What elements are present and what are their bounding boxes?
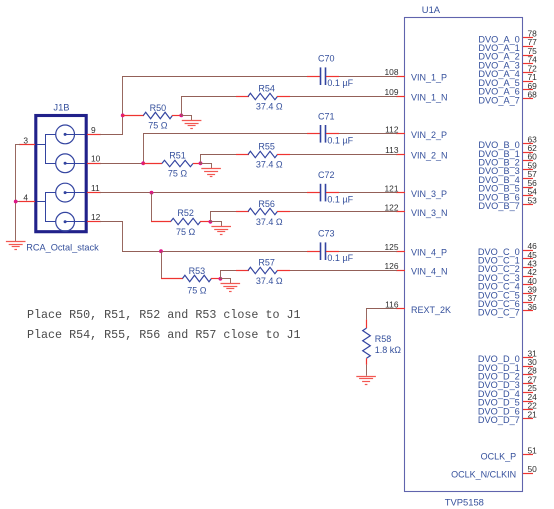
U1A pin 25 DVO_D_4	[478, 383, 537, 399]
svg-text:75 Ω: 75 Ω	[148, 120, 168, 130]
svg-text:116: 116	[385, 299, 399, 309]
capacitor C73 0.1 uF	[307, 228, 354, 263]
svg-text:50: 50	[528, 464, 538, 474]
U1A pin 21 DVO_D_7	[478, 409, 537, 425]
svg-text:VIN_3_N: VIN_3_N	[411, 208, 448, 218]
J1B pin 4	[19, 192, 35, 202]
U1A pin 116 REXT_2K	[385, 299, 451, 315]
U1A pin 113 VIN_2_N	[385, 145, 447, 161]
svg-text:0.1 µF: 0.1 µF	[327, 194, 353, 204]
junction ch3 R52/gnd	[209, 220, 213, 224]
junction on ground rail at pin 4	[14, 200, 18, 204]
svg-text:REXT_2K: REXT_2K	[411, 305, 451, 315]
U1A pin 40 DVO_C_4	[478, 276, 537, 292]
wire VIN_3_N net	[210, 212, 397, 222]
svg-text:DVO_A_7: DVO_A_7	[478, 95, 519, 105]
resistor R56 37.4 Ohm	[236, 199, 290, 227]
svg-text:36: 36	[528, 302, 538, 312]
U1A pin 24 DVO_D_5	[478, 392, 537, 408]
svg-text:122: 122	[385, 202, 399, 212]
junction ch4 R53/gnd	[219, 277, 223, 281]
U1A pin 51 OCLK_P	[481, 446, 537, 462]
U1A pin 112 VIN_2_P	[385, 125, 447, 141]
svg-text:121: 121	[385, 183, 399, 193]
U1A pin 43 DVO_C_2	[478, 258, 537, 274]
svg-text:OCLK_N/CLKIN: OCLK_N/CLKIN	[451, 470, 516, 480]
U1A pin 72 DVO_A_4	[478, 63, 537, 79]
U1A pin 108 VIN_1_P	[385, 67, 448, 83]
svg-text:R52: R52	[177, 208, 194, 218]
svg-text:R55: R55	[258, 141, 275, 151]
U1A pin 27 DVO_D_3	[478, 374, 537, 390]
svg-text:75 Ω: 75 Ω	[176, 227, 196, 237]
U1A pin 71 DVO_A_5	[478, 72, 537, 88]
wire VIN_4_P net	[122, 251, 397, 253]
U1A pin 69 DVO_A_6	[478, 81, 537, 97]
wire ch4 down to R53	[161, 251, 163, 279]
junction ch3	[150, 191, 154, 195]
resistor R57 37.4 Ohm	[236, 258, 290, 286]
U1A pin 77 DVO_A_1	[478, 37, 537, 53]
resistor R52 75 Ohm	[151, 208, 211, 237]
svg-text:R54: R54	[258, 83, 275, 93]
svg-text:C70: C70	[318, 53, 335, 63]
svg-text:21: 21	[528, 409, 538, 419]
U1A pin 60 DVO_B_2	[478, 152, 537, 168]
U1A pin 109 VIN_1_N	[385, 87, 448, 103]
junction ch1 R50/gnd	[179, 114, 183, 118]
U1A pin 37 DVO_C_6	[478, 293, 537, 309]
svg-text:0.1 µF: 0.1 µF	[327, 136, 353, 146]
wire J1B pin11 / VIN_3_P net	[100, 192, 397, 194]
ground (J1B shield)	[6, 242, 26, 250]
U1A pin 57 DVO_B_4	[478, 169, 537, 185]
J1B pin 9	[87, 125, 101, 135]
svg-text:37.4 Ω: 37.4 Ω	[256, 101, 283, 111]
svg-text:R50: R50	[150, 103, 167, 113]
svg-text:VIN_2_P: VIN_2_P	[411, 130, 447, 140]
op-amp U1A (TVP5158 IC body)	[405, 4, 523, 508]
svg-text:R56: R56	[258, 199, 275, 209]
wire ch3 down to R52	[151, 193, 153, 222]
U1A pin 54 DVO_B_6	[478, 187, 537, 203]
svg-text:RCA_Octal_stack: RCA_Octal_stack	[26, 243, 99, 253]
J1B pin 12	[87, 212, 101, 222]
U1A pin 46 DVO_C_0	[478, 241, 537, 257]
ground ch3	[210, 222, 231, 235]
svg-text:10: 10	[91, 154, 101, 164]
ground ch4	[220, 279, 240, 292]
wire VIN_1_N net	[181, 96, 397, 115]
U1A pin 36 DVO_C_7	[478, 302, 537, 318]
wire R58 to ground	[366, 365, 368, 376]
wire VIN_1_P net	[122, 76, 397, 78]
svg-text:Place R50, R51, R52 and R53 cl: Place R50, R51, R52 and R53 close to J1	[27, 308, 301, 322]
svg-text:126: 126	[385, 261, 399, 271]
resistor R51 75 Ohm	[143, 151, 201, 179]
U1A pin 78 DVO_A_0	[478, 29, 537, 45]
resistor R58 1.8 kOhm	[363, 320, 402, 365]
svg-text:113: 113	[385, 145, 399, 155]
svg-text:VIN_3_P: VIN_3_P	[411, 189, 447, 199]
svg-text:R57: R57	[258, 258, 275, 268]
svg-text:0.1 µF: 0.1 µF	[327, 253, 353, 263]
svg-text:J1B: J1B	[53, 102, 69, 113]
svg-text:C71: C71	[318, 111, 335, 121]
U1A pin 28 DVO_D_2	[478, 366, 537, 382]
wire VIN_4_N net	[220, 270, 397, 279]
U1A pin 63 DVO_B_0	[478, 134, 537, 150]
resistor R53 75 Ohm	[161, 266, 221, 295]
U1A pin 121 VIN_3_P	[385, 183, 448, 199]
U1A pin 122 VIN_3_N	[385, 202, 448, 218]
svg-text:12: 12	[91, 212, 101, 222]
svg-text:R53: R53	[189, 266, 206, 276]
wire J1B pin12 to node	[100, 222, 123, 252]
resistor R54 37.4 Ohm	[236, 83, 290, 111]
svg-text:3: 3	[23, 135, 28, 145]
svg-text:53: 53	[528, 195, 538, 205]
U1A pin 74 DVO_A_3	[478, 55, 537, 71]
junction ch4	[159, 249, 163, 253]
svg-text:9: 9	[91, 125, 96, 135]
U1A pin 50 OCLK_N/CLKIN	[451, 464, 537, 480]
svg-text:DVO_D_7: DVO_D_7	[478, 415, 520, 425]
wire VIN_2_N net	[200, 154, 397, 163]
svg-text:VIN_1_P: VIN_1_P	[411, 73, 447, 83]
svg-text:U1A: U1A	[422, 4, 441, 15]
svg-text:37.4 Ω: 37.4 Ω	[256, 276, 283, 286]
resistor R55 37.4 Ohm	[236, 141, 290, 169]
J1B pin 10	[87, 154, 101, 164]
svg-text:VIN_4_N: VIN_4_N	[411, 267, 448, 277]
svg-text:OCLK_P: OCLK_P	[481, 451, 517, 461]
wire J1B pin10 to node	[100, 134, 144, 164]
U1A pin 53 DVO_B_7	[478, 195, 537, 211]
wire REXT_2K net	[366, 309, 397, 320]
U1A pin 62 DVO_B_1	[478, 143, 537, 159]
svg-text:11: 11	[91, 183, 100, 193]
svg-text:VIN_4_P: VIN_4_P	[411, 248, 447, 258]
U1A pin 68 DVO_A_7	[478, 89, 537, 105]
U1A pin 39 DVO_C_5	[478, 284, 537, 300]
ground ch2	[200, 163, 221, 176]
J1B pin 11	[87, 183, 101, 193]
svg-text:VIN_1_N: VIN_1_N	[411, 93, 448, 103]
svg-text:R51: R51	[169, 151, 186, 161]
U1A pin 125 VIN_4_P	[385, 242, 448, 258]
capacitor C72 0.1 uF	[307, 170, 354, 204]
svg-text:VIN_2_N: VIN_2_N	[411, 151, 448, 161]
U1A pin 59 DVO_B_3	[478, 160, 537, 176]
svg-text:37.4 Ω: 37.4 Ω	[256, 217, 283, 227]
U1A pin 42 DVO_C_3	[478, 267, 537, 283]
svg-text:75 Ω: 75 Ω	[187, 285, 207, 295]
junction ch1	[121, 114, 125, 118]
wire VIN_2_P net	[143, 133, 397, 135]
svg-text:125: 125	[385, 242, 399, 252]
svg-text:TVP5158: TVP5158	[445, 497, 484, 508]
svg-text:Place R54, R55, R56 and R57 cl: Place R54, R55, R56 and R57 close to J1	[27, 328, 301, 342]
U1A pin 22 DVO_D_6	[478, 401, 537, 417]
U1A pin 45 DVO_C_1	[478, 250, 537, 266]
junction ch2	[141, 161, 145, 165]
svg-text:DVO_B_7: DVO_B_7	[478, 201, 519, 211]
svg-text:75 Ω: 75 Ω	[168, 168, 188, 178]
resistor R50 75 Ohm	[122, 103, 182, 131]
U1A pin 30 DVO_D_1	[478, 357, 537, 373]
connector J1B RCA_Octal_stack	[26, 102, 99, 253]
U1A pin 56 DVO_B_5	[478, 178, 537, 194]
svg-text:C73: C73	[318, 228, 335, 238]
svg-text:4: 4	[23, 192, 28, 202]
svg-text:1.8 kΩ: 1.8 kΩ	[375, 345, 402, 355]
ground ch1	[181, 115, 201, 128]
junction ch2 R51/gnd	[199, 161, 203, 165]
svg-text:DVO_C_7: DVO_C_7	[478, 308, 520, 318]
capacitor C71 0.1 uF	[307, 111, 354, 145]
svg-text:37.4 Ω: 37.4 Ω	[256, 159, 283, 169]
J1B pin 3	[19, 135, 35, 145]
svg-text:R58: R58	[375, 334, 392, 344]
ground R58	[356, 377, 376, 385]
U1A pin 31 DVO_D_0	[478, 348, 537, 364]
U1A pin 126 VIN_4_N	[385, 261, 448, 277]
capacitor C70 0.1 uF	[307, 53, 354, 87]
svg-text:C72: C72	[318, 170, 335, 180]
wire J1B pin9 to node	[100, 76, 123, 134]
svg-text:51: 51	[528, 446, 538, 456]
U1A pin 75 DVO_A_2	[478, 46, 537, 62]
svg-text:108: 108	[385, 67, 399, 77]
svg-text:68: 68	[528, 89, 538, 99]
svg-text:0.1 µF: 0.1 µF	[327, 78, 353, 88]
svg-text:109: 109	[385, 87, 399, 97]
wire J1B pins 3,4 to ground rail	[15, 145, 20, 242]
